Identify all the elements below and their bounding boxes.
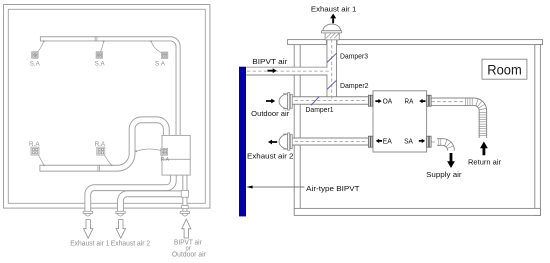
takeoff from diffuser R.A 2 — [104, 155, 111, 165]
pipe end cap — [182, 214, 189, 217]
svg-text:Exhaust air 2: Exhaust air 2 — [111, 241, 150, 248]
pipe end flange — [83, 211, 92, 213]
pipe end flange — [180, 211, 189, 213]
svg-text:Air-type BIPVT: Air-type BIPVT — [306, 184, 360, 193]
damper2 blade — [327, 80, 337, 89]
svg-text:Outdoor air: Outdoor air — [172, 252, 207, 259]
unit duct flanges — [368, 95, 370, 106]
room floor slab — [294, 208, 540, 215]
room plan outer wall — [4, 5, 210, 209]
black arrow Return air (up) — [480, 142, 488, 156]
diffuser S.A 2 — [96, 52, 102, 58]
label EA with arrow — [376, 139, 382, 143]
takeoff to diffuser S.A 1 — [43, 40, 45, 42]
BIPVT/outdoor intake pipe below air unit — [182, 175, 187, 213]
takeoff from diffuser R.A 1 — [39, 155, 44, 165]
diffuser R.A on unit — [161, 148, 168, 155]
supply duct joint — [94, 36, 96, 41]
pipe end cap — [85, 214, 92, 217]
svg-text:Return air: Return air — [468, 158, 501, 167]
svg-text:Damper3: Damper3 — [340, 51, 368, 60]
takeoff curve to unit R.A diffuser — [135, 150, 137, 152]
svg-text:Exhaust air 1: Exhaust air 1 — [311, 4, 357, 13]
Room label box — [482, 59, 527, 79]
hollow arrow exhaust air 2 (down) — [116, 220, 125, 239]
BIPVT collector (blue bar) — [239, 67, 246, 217]
svg-text:S.A: S.A — [155, 60, 166, 67]
return duct left end cap — [39, 165, 41, 172]
roof vent cap base — [322, 31, 342, 33]
exhaust air 2 duct from unit EA — [288, 138, 368, 146]
return air duct from room to unit RA — [431, 97, 466, 105]
takeoff to diffuser S.A 2 — [103, 40, 105, 42]
return air duct with riser to air unit — [40, 120, 166, 168]
exhaust duct 1 from air unit to floor outlet — [88, 175, 174, 213]
svg-text:S.A: S.A — [30, 60, 41, 67]
damper3 blade — [327, 53, 337, 62]
black arrow Exhaust air 2 (left) — [268, 140, 277, 145]
pipe end cap — [117, 214, 124, 217]
outdoor air wall vent — [279, 94, 288, 109]
roof slab right segment — [337, 40, 543, 45]
intake pipe collar joint — [181, 190, 188, 197]
damper1 blade — [311, 97, 319, 106]
supply duct left end cap — [39, 36, 41, 41]
return duct joint — [97, 165, 99, 172]
supply air duct (top run and right drop) — [41, 39, 179, 136]
diffuser S.A 1 — [32, 52, 38, 58]
BIPVT air duct — [246, 67, 326, 76]
svg-text:BIPVT air: BIPVT air — [252, 57, 288, 66]
diffuser R.A 2 — [97, 147, 105, 155]
svg-text:R.A: R.A — [95, 141, 106, 148]
svg-text:SA: SA — [404, 139, 413, 146]
exhaust air 2 wall vent — [279, 134, 288, 149]
label OA with arrow — [375, 99, 381, 103]
room right wall — [535, 45, 541, 216]
svg-text:R.A: R.A — [161, 157, 170, 163]
leader line Air-type BIPVT — [250, 186, 305, 188]
label RA with arrow — [419, 99, 425, 103]
svg-text:Room: Room — [487, 62, 522, 77]
roof vent collar with mesh — [325, 33, 339, 40]
svg-text:Damper2: Damper2 — [340, 81, 369, 90]
svg-text:Exhaust air 2: Exhaust air 2 — [247, 152, 294, 161]
black arrow Supply air (down) — [447, 153, 455, 168]
outdoor air duct to unit OA — [288, 96, 368, 104]
return air flex duct elbow — [465, 102, 483, 138]
pipe end flange — [116, 211, 125, 213]
exhaust duct 2 from floor outlet to riser joint — [121, 194, 183, 213]
roof vent cap dome — [323, 24, 341, 31]
label SA with arrow — [419, 139, 425, 143]
roof slab left segment — [288, 40, 327, 45]
air handling unit box — [162, 135, 190, 175]
room left wall — [293, 45, 295, 209]
heat exchange unit box — [373, 91, 427, 152]
air unit divider — [162, 158, 190, 160]
svg-text:S.A: S.A — [95, 60, 106, 67]
room plan inner wall — [8, 9, 205, 203]
diffuser R.A 1 — [31, 147, 39, 155]
hollow arrow exhaust air 1 (down) — [84, 220, 93, 239]
black arrow exhaust air 1 (up) — [330, 14, 336, 24]
duct centerline dashes — [331, 34, 333, 99]
svg-text:Outdoor air: Outdoor air — [251, 109, 289, 118]
hollow arrow intake (up) — [182, 219, 191, 238]
takeoff to diffuser S.A 3 — [150, 40, 152, 42]
supply air flex duct elbow — [437, 142, 451, 151]
vertical exhaust duct through roof — [327, 39, 338, 97]
svg-text:Damper1: Damper1 — [306, 105, 334, 114]
svg-text:Supply air: Supply air — [426, 170, 462, 179]
svg-text:Exhaust air 1: Exhaust air 1 — [70, 241, 109, 248]
svg-text:RA: RA — [405, 99, 414, 106]
svg-text:R.A: R.A — [29, 141, 40, 148]
black arrow Outdoor air (right) — [266, 99, 275, 104]
svg-text:EA: EA — [383, 139, 393, 146]
black arrow BIPVT air (right) — [268, 68, 277, 73]
diffuser S.A 3 — [161, 52, 167, 58]
intake pipe wall flange — [182, 205, 189, 208]
svg-text:OA: OA — [383, 99, 393, 106]
